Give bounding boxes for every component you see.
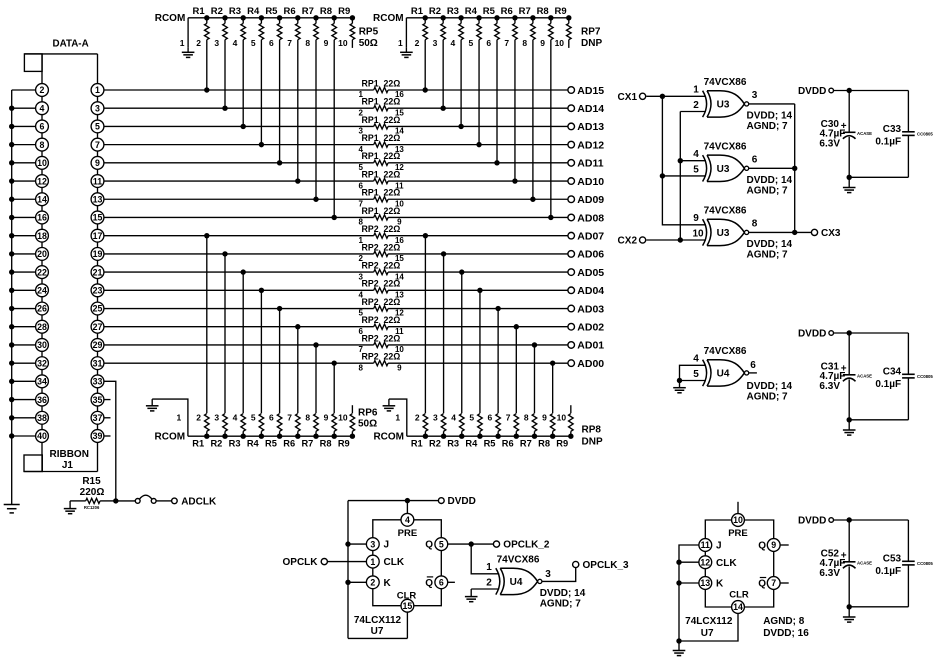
ground (RP7 RCOM) (400, 48, 413, 58)
wire J1 pin 31 to AD00 (104, 362, 568, 364)
wire DVDD loop to CLR (U7a) (348, 501, 407, 639)
wire RP6.R7 to AD1 (313, 342, 318, 413)
wire J1 pin 21 to AD05 (104, 271, 568, 273)
resistor RP5.R6 (284, 6, 301, 40)
resistor RP5.R8 (320, 6, 337, 40)
wire RP8.R2 to AD6 (441, 251, 446, 413)
svg-text:U3: U3 (717, 164, 730, 175)
connector pin 16 (36, 211, 49, 229)
svg-text:4: 4 (233, 38, 238, 48)
svg-text:Q: Q (758, 579, 766, 590)
node AD00 (568, 358, 604, 370)
svg-text:5: 5 (693, 164, 699, 175)
svg-text:6: 6 (488, 413, 493, 423)
junction ground bus row 11 (9, 288, 14, 293)
svg-text:R8: R8 (538, 438, 550, 448)
svg-text:Q: Q (425, 540, 433, 551)
resistor RP2 element 2-15 22ohm (358, 242, 404, 263)
resistor RP7.R3 (447, 6, 464, 40)
connector name RIBBON J1 (49, 449, 88, 471)
RP5 pin 7 number (287, 38, 292, 48)
wire DVDD rail (U7 left) (348, 498, 438, 503)
flip-flop U7b body top edge (705, 520, 773, 539)
svg-text:R2: R2 (211, 6, 223, 17)
svg-text:AD08: AD08 (577, 212, 604, 224)
wire RP5.R6 to AD10 (295, 40, 300, 184)
resistor RP8.R7 (520, 414, 537, 449)
resistor RP7.R6 (501, 6, 518, 40)
svg-text:10: 10 (733, 515, 743, 525)
node OPCLK_2 (493, 540, 549, 551)
connector pin 39 (91, 430, 104, 443)
svg-text:ADCLK: ADCLK (181, 497, 217, 508)
node AD02 (568, 322, 604, 334)
svg-text:Q: Q (425, 578, 433, 589)
svg-text:74VCX86: 74VCX86 (704, 346, 747, 357)
svg-text:6: 6 (40, 122, 45, 132)
RP8 RCOM label (373, 432, 404, 443)
connector pin 7 (91, 138, 104, 156)
RP6 pin 3 number (214, 413, 219, 423)
RP6 pin 7 number (287, 413, 292, 423)
svg-text:35: 35 (93, 395, 103, 405)
svg-text:1: 1 (177, 413, 182, 423)
connector pin 34 (36, 375, 49, 393)
resistor RP8.R9 (556, 414, 573, 449)
svg-text:74LCX112: 74LCX112 (685, 616, 733, 627)
svg-text:8: 8 (522, 38, 527, 48)
svg-text:74VCX86: 74VCX86 (704, 77, 747, 88)
junction ground bus row 14 (9, 342, 14, 347)
svg-text:U4: U4 (510, 577, 523, 588)
svg-text:CX2: CX2 (618, 236, 638, 247)
svg-text:R15: R15 (82, 476, 101, 487)
junction ground bus row 4 (9, 160, 14, 165)
svg-text:AGND; 7: AGND; 7 (540, 598, 582, 609)
resistor RP5.R4 (247, 6, 264, 40)
svg-text:12: 12 (37, 176, 47, 186)
ground (RP5 RCOM) (182, 48, 195, 58)
resistor RP8.R2 (429, 414, 446, 449)
junction ground bus row 18 (9, 415, 14, 420)
wire U3 pin2 to pin4 to pin10 (CX2 net) (678, 112, 706, 243)
ground (J1 bus) (4, 500, 20, 513)
capacitor C52 4.7uF polarized (819, 520, 872, 607)
wire pin 16 to ground bus (12, 216, 36, 218)
capacitor C33 0.1uF ceramic (875, 124, 933, 178)
svg-text:R7: R7 (520, 438, 532, 448)
svg-text:14: 14 (37, 194, 47, 204)
RP7 pin 1 number (398, 38, 403, 48)
svg-text:DVDD; 14: DVDD; 14 (747, 381, 793, 392)
connector pin 31 (91, 357, 104, 375)
svg-text:DVDD; 14: DVDD; 14 (747, 239, 793, 250)
connector pin 35 (91, 393, 104, 411)
svg-text:10: 10 (338, 413, 348, 423)
wire pin 33 to ADCLK node (104, 381, 116, 501)
resistor network RP8 rail (407, 435, 573, 437)
svg-text:R5: R5 (265, 438, 277, 448)
svg-text:3: 3 (370, 539, 375, 549)
stub U4 output 6 (749, 372, 757, 374)
RP7 pin 10 number (555, 38, 565, 48)
connector pin 32 (36, 357, 49, 375)
svg-text:8: 8 (305, 413, 310, 423)
svg-text:R4: R4 (465, 6, 478, 17)
svg-text:R9: R9 (555, 6, 567, 17)
ground (RP8 RCOM) (383, 399, 396, 411)
svg-text:6: 6 (269, 38, 274, 48)
svg-text:2: 2 (415, 413, 420, 423)
junction ground bus row 2 (9, 124, 14, 129)
resistor R15 220ohm (70, 476, 116, 510)
wire CLK to ground bus (U7b) (676, 560, 699, 565)
svg-text:3: 3 (214, 413, 219, 423)
junction ground bus row 17 (9, 397, 14, 402)
flip-flop U7b pin 13 K (699, 577, 724, 590)
svg-text:PRE: PRE (398, 528, 418, 539)
resistor RP5.R7 (302, 6, 319, 40)
svg-text:13: 13 (93, 194, 103, 204)
wire cap bottom rail (C30) (847, 175, 909, 180)
resistor network RP6 rail (188, 435, 354, 437)
wire J to DVDD bus (345, 541, 366, 546)
svg-text:9: 9 (771, 540, 776, 550)
connector pin 23 (91, 284, 104, 302)
svg-text:RP1 22Ω: RP1 22Ω (361, 115, 400, 125)
svg-text:2: 2 (196, 38, 201, 48)
svg-text:8: 8 (752, 218, 758, 229)
svg-text:CC0805: CC0805 (917, 561, 933, 566)
svg-text:1: 1 (95, 85, 100, 95)
svg-text:19: 19 (93, 249, 103, 259)
wire DVDD rail (C31) (834, 330, 909, 374)
connector pin 10 (36, 156, 49, 174)
svg-text:RP2 22Ω: RP2 22Ω (361, 333, 400, 343)
svg-text:74VCX86: 74VCX86 (704, 205, 747, 216)
svg-text:5: 5 (693, 369, 699, 380)
resistor RP1 element 3-14 22ohm (358, 115, 404, 136)
svg-text:R5: R5 (484, 438, 496, 448)
flip-flop U7a body top edge (373, 520, 442, 538)
svg-text:RP1 22Ω: RP1 22Ω (361, 206, 400, 216)
flip-flop U7a pin 3 J (366, 538, 389, 556)
svg-text:9: 9 (397, 363, 402, 372)
svg-text:11: 11 (93, 176, 102, 186)
svg-text:U7: U7 (701, 628, 714, 639)
resistor RP6.R4 (247, 414, 264, 449)
RP7 pin 10 stub (568, 40, 570, 48)
flip-flop U7a body bottom edges (373, 589, 442, 606)
node DVDD (C31/C34) (798, 329, 834, 340)
svg-text:J: J (384, 540, 390, 551)
RP5 pin 10 number (338, 38, 348, 48)
svg-text:31: 31 (93, 358, 103, 368)
svg-text:1: 1 (693, 85, 699, 96)
wire RP6.R3 to AD5 (241, 269, 246, 413)
RP8 pin 8 number (524, 413, 529, 423)
stub U7b pin 7 (780, 582, 789, 584)
RP8 pin 10 stub (570, 405, 572, 413)
svg-text:15: 15 (93, 213, 103, 223)
wire U4 pin 2 to ground (471, 588, 499, 590)
wire J1 pin 13 to AD09 (104, 198, 568, 200)
svg-text:AD11: AD11 (577, 158, 603, 170)
svg-text:AGND; 7: AGND; 7 (747, 391, 789, 402)
flip-flop U7a pin 15 CLR (397, 590, 417, 612)
ground (R15) (64, 501, 77, 514)
wire RP5.R4 to AD12 (259, 40, 264, 148)
wire K to ground bus (U7b) (676, 580, 699, 585)
flip-flop U7a pin 1 CLK (366, 555, 404, 576)
svg-text:DNP: DNP (582, 436, 603, 447)
RP8 pin 7 number (506, 413, 511, 423)
wire RP5.R8 to AD8 (332, 40, 337, 220)
RP8 pin 1 wire (389, 399, 407, 436)
svg-text:RP1 22Ω: RP1 22Ω (361, 133, 400, 143)
svg-text:40: 40 (37, 431, 47, 441)
svg-text:AD15: AD15 (577, 85, 604, 97)
svg-text:16: 16 (37, 213, 47, 223)
svg-text:7: 7 (506, 413, 511, 423)
svg-text:3: 3 (545, 569, 551, 580)
svg-text:AD03: AD03 (577, 303, 604, 315)
connector pin 5 (91, 120, 104, 138)
RP8 pin 1 number (395, 413, 400, 423)
flip-flop U7a name labels (354, 615, 402, 637)
svg-text:R3: R3 (447, 438, 459, 448)
capacitor C31 4.7uF polarized (819, 333, 872, 420)
resistor RP2 element 5-12 22ohm (358, 297, 404, 318)
svg-text:R1: R1 (192, 438, 204, 448)
wire CX1 to U3 pin1 (646, 95, 706, 97)
RP8 pin 6 number (488, 413, 493, 423)
wire RP7.R8 to AD8 (548, 40, 553, 220)
node AD15 (568, 85, 604, 97)
wire RP5.R1 to AD15 (204, 40, 209, 93)
svg-text:21: 21 (93, 267, 103, 277)
wire U4 output 3 to OPCLK_3 (542, 568, 576, 582)
node AD01 (568, 340, 604, 352)
RP6 pin 10 number (338, 413, 348, 423)
U7b power pin labels (763, 616, 809, 639)
svg-text:R3: R3 (229, 438, 241, 448)
svg-text:RCOM: RCOM (155, 13, 186, 24)
connector pin 11 (91, 175, 104, 193)
svg-text:2: 2 (370, 578, 375, 588)
wire K to DVDD bus (345, 580, 366, 585)
connector pin 20 (36, 247, 49, 265)
resistor RP1 element 5-12 22ohm (358, 151, 404, 172)
junction ground bus row 3 (9, 142, 14, 147)
resistor RP5.R1 (193, 6, 210, 40)
node OPCLK_3 (573, 560, 629, 571)
node CX2 (618, 236, 646, 247)
resistor RP2 element 1-16 22ohm (358, 224, 404, 245)
junction ground bus row 9 (9, 251, 14, 256)
wire pin 38 to ground bus (12, 417, 36, 419)
svg-text:50Ω: 50Ω (359, 38, 378, 49)
RP5 pin 3 number (214, 38, 219, 48)
resistor RP6.R6 (283, 414, 300, 449)
svg-text:8: 8 (358, 363, 363, 372)
svg-text:10: 10 (692, 229, 704, 240)
connector pin 6 (36, 120, 49, 138)
svg-text:9: 9 (693, 213, 699, 224)
svg-text:3: 3 (95, 103, 100, 113)
svg-text:RCOM: RCOM (373, 432, 404, 443)
RP8 pin 2 number (415, 413, 420, 423)
wire RP7.R7 to AD9 (530, 40, 535, 202)
wire J1 pin 25 to AD03 (104, 308, 568, 310)
wire J1 pin 1 to AD15 (104, 89, 568, 91)
connector pin 30 (36, 339, 49, 357)
connector J1 label DATA-A (53, 39, 89, 50)
wire pin 32 to ground bus (12, 362, 36, 364)
capacitor C34 0.1uF ceramic (875, 366, 933, 420)
ground (U4 bottom pin 2) (465, 589, 478, 602)
resistor RP8.R6 (502, 414, 519, 449)
stub pin 35 (104, 399, 111, 401)
flip-flop U7b body bottom edges (705, 589, 773, 607)
capacitor C53 0.1uF ceramic (875, 553, 933, 607)
junction R15 / pin33 / jumper (113, 498, 118, 503)
junction ground bus row 1 (9, 106, 14, 111)
svg-text:8: 8 (305, 38, 310, 48)
RP7 RCOM label (373, 13, 404, 24)
connector pin 28 (36, 320, 49, 338)
svg-text:U4: U4 (717, 369, 730, 380)
junction CX1 branch (660, 94, 665, 99)
svg-text:27: 27 (93, 322, 103, 332)
svg-text:4: 4 (451, 413, 456, 423)
RP8 pin 5 number (469, 413, 474, 423)
RP5 RCOM label (155, 13, 186, 24)
wire RP5.R2 to AD14 (222, 40, 227, 111)
svg-text:DVDD; 14: DVDD; 14 (540, 588, 586, 599)
svg-text:6.3V: 6.3V (819, 381, 840, 392)
svg-text:R4: R4 (247, 438, 260, 448)
wire pin 28 to ground bus (12, 326, 36, 328)
svg-text:5: 5 (95, 122, 100, 132)
svg-text:R1: R1 (411, 438, 423, 448)
svg-text:30: 30 (37, 340, 47, 350)
svg-text:ACASE: ACASE (857, 131, 872, 136)
wire J1 pin 19 to AD06 (104, 253, 568, 255)
RP8 pin 4 number (451, 413, 456, 423)
resistor RP1 element 8-9 22ohm (358, 206, 402, 227)
wire to jumper (116, 500, 136, 502)
svg-text:1: 1 (486, 562, 492, 573)
resistor RP5.R5 (265, 6, 282, 40)
resistor RP7.R4 (465, 6, 482, 40)
svg-text:R6: R6 (283, 438, 295, 448)
wire RP8.R7 to AD1 (532, 342, 537, 413)
wire RP5.R7 to AD9 (313, 40, 318, 202)
svg-text:11: 11 (701, 540, 710, 550)
svg-text:RP1 22Ω: RP1 22Ω (361, 151, 400, 161)
svg-text:AGND; 7: AGND; 7 (747, 121, 789, 132)
RP7 pin 2 number (415, 38, 420, 48)
svg-text:R9: R9 (338, 438, 350, 448)
ground (U7b) (673, 641, 686, 656)
resistor RP1 element 2-15 22ohm (358, 97, 404, 118)
RP5 pin 4 number (233, 38, 238, 48)
wire pin 24 to ground bus (12, 289, 36, 291)
svg-text:R1: R1 (411, 6, 424, 17)
wire J to ground bus (U7b) (679, 545, 699, 641)
svg-text:U7: U7 (371, 626, 384, 637)
node DVDD (C30/C33) (798, 86, 834, 97)
wire U3 outputs 3,6,8 tied (749, 104, 812, 235)
op-amp U4 gate (74VCX86 XOR pins 4,5 -> 6) (693, 346, 792, 403)
node AD11 (568, 158, 604, 170)
flip-flop U7b name labels (685, 616, 733, 639)
wire J1 pin 5 to AD13 (104, 125, 568, 127)
RP5 pin 2 number (196, 38, 201, 48)
svg-text:AD13: AD13 (577, 121, 604, 133)
wire RP6.R6 to AD2 (295, 324, 300, 413)
connector pin 12 (36, 175, 49, 193)
svg-text:R7: R7 (301, 438, 313, 448)
svg-text:AD02: AD02 (577, 322, 604, 334)
svg-text:5: 5 (251, 413, 256, 423)
wire pin 8 to ground bus (12, 144, 36, 146)
node AD07 (568, 230, 604, 242)
svg-text:AD14: AD14 (577, 103, 604, 115)
junction ground bus row 7 (9, 215, 14, 220)
flip-flop U7b pin 11 J (699, 539, 722, 556)
ground (C52/C53) (843, 607, 856, 622)
svg-text:7: 7 (771, 578, 776, 588)
wire RP6.R5 to AD3 (277, 306, 282, 413)
svg-text:4: 4 (693, 354, 699, 365)
svg-text:32: 32 (37, 358, 47, 368)
connector pin 1 (91, 84, 104, 102)
svg-text:RCOM: RCOM (373, 13, 404, 24)
svg-text:RP2 22Ω: RP2 22Ω (361, 352, 400, 362)
node AD13 (568, 121, 604, 133)
wire CLR to ground bus (U7b) (676, 613, 738, 643)
flip-flop U7a pin 6 Qbar (425, 576, 447, 589)
connector pin 3 (91, 102, 104, 120)
svg-text:RP2 22Ω: RP2 22Ω (361, 261, 400, 271)
svg-text:6: 6 (439, 578, 444, 588)
connector pin 27 (91, 320, 104, 338)
svg-text:RIBBON: RIBBON (49, 449, 88, 460)
RP8 pin 9 number (542, 413, 547, 423)
wire RP8.R1 to AD7 (423, 233, 428, 413)
svg-text:CC0805: CC0805 (917, 132, 933, 137)
connector pin 37 (91, 411, 104, 429)
resistor RP6.R5 (265, 414, 282, 449)
wire RP6.R4 to AD4 (259, 288, 264, 414)
svg-text:U3: U3 (717, 228, 730, 239)
node AD06 (568, 249, 604, 261)
connector pin 22 (36, 266, 49, 284)
svg-text:CX3: CX3 (821, 228, 841, 239)
wire pin 12 to ground bus (12, 180, 36, 182)
wire DVDD rail (C30) (834, 88, 909, 132)
svg-text:9: 9 (324, 413, 329, 423)
RP6 pin 1 number (177, 413, 182, 423)
connector pin 4 (36, 102, 49, 120)
node AD09 (568, 194, 604, 206)
svg-text:4: 4 (693, 149, 699, 160)
ground (U4 mid inputs) (673, 381, 686, 393)
resistor network RP5 rail (188, 17, 354, 19)
node AD04 (568, 285, 604, 297)
